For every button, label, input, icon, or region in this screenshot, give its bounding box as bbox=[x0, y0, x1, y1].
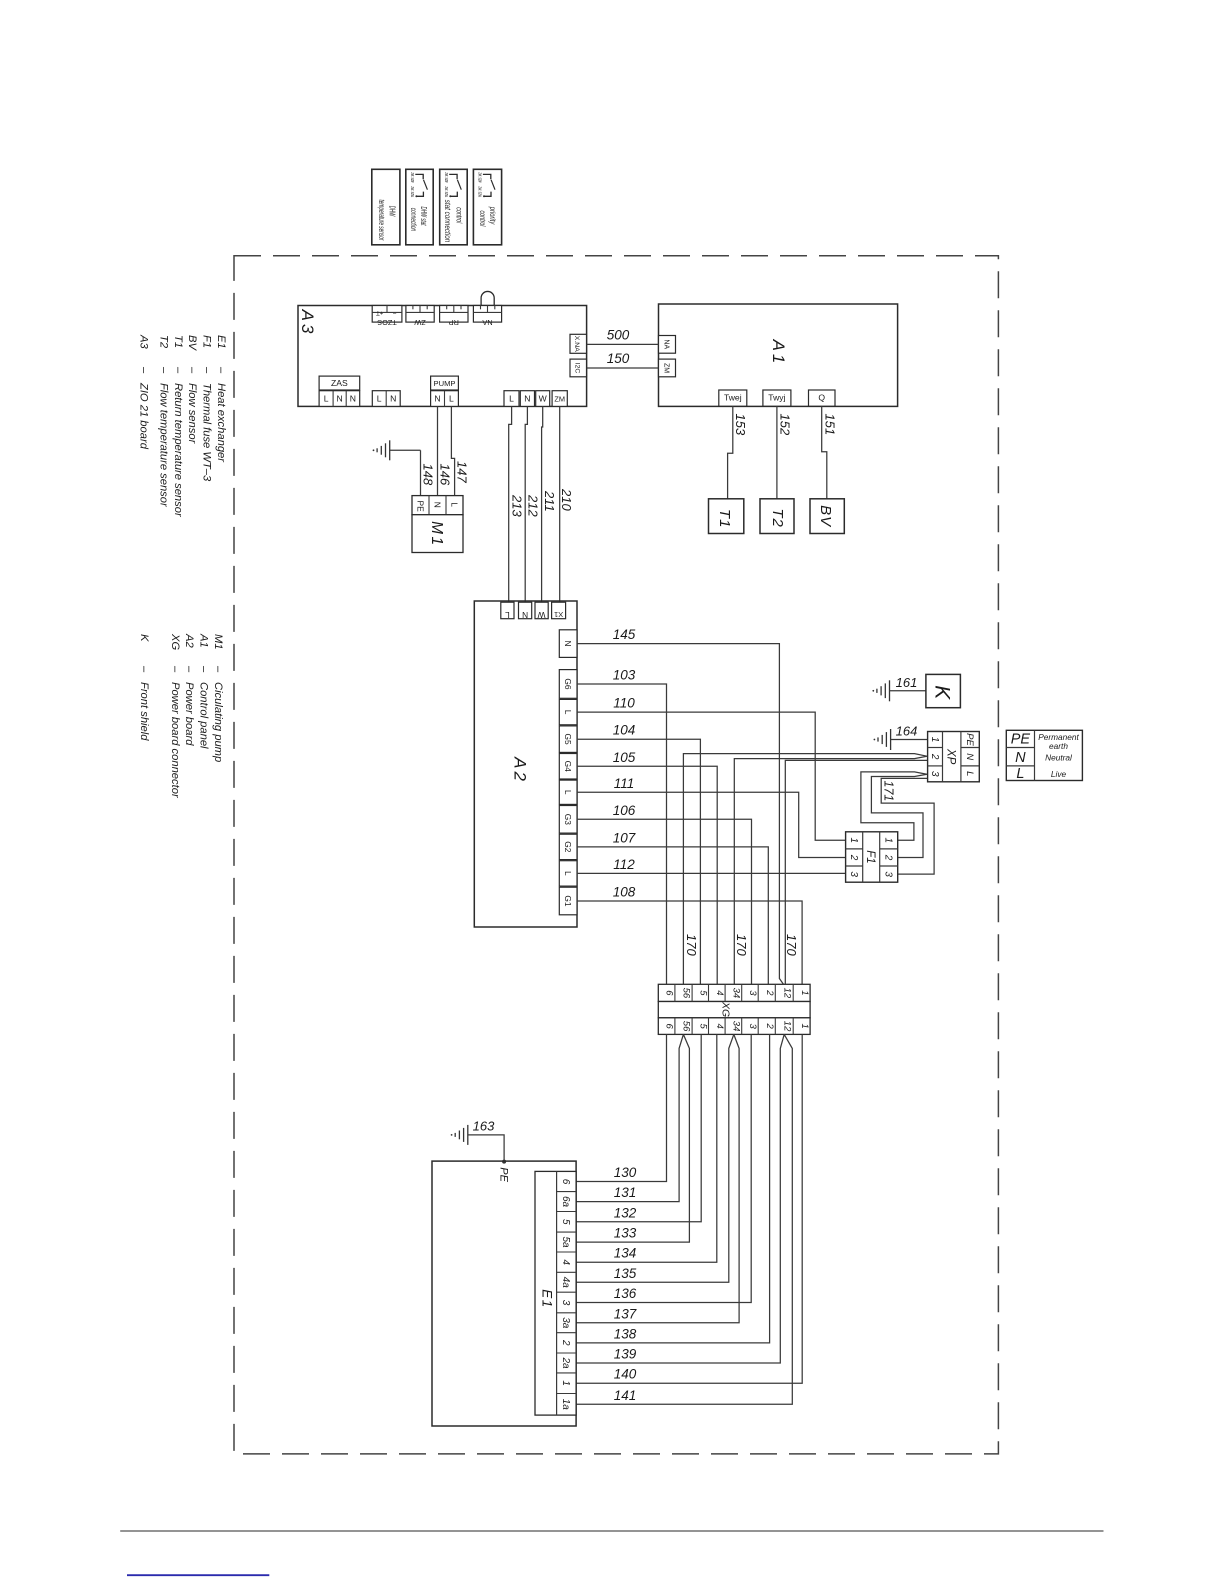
svg-text:X.NA: X.NA bbox=[573, 336, 580, 352]
wire 134 XG 4 to E1 4 bbox=[576, 1034, 717, 1262]
svg-text:control: control bbox=[454, 207, 463, 223]
svg-text:Q: Q bbox=[818, 392, 825, 402]
svg-text:12: 12 bbox=[781, 1021, 792, 1032]
svg-text:3a: 3a bbox=[560, 1317, 571, 1329]
wire 210 A3 ZM to A2 X1 bbox=[559, 406, 574, 602]
svg-text:A2: A2 bbox=[183, 633, 195, 648]
wire 130 XG 6 to E1 6 bbox=[576, 1034, 666, 1181]
svg-text:L: L bbox=[324, 394, 329, 404]
svg-text:1: 1 bbox=[882, 838, 893, 844]
svg-text:M1: M1 bbox=[428, 521, 445, 548]
svg-text:Twej: Twej bbox=[724, 392, 742, 402]
wire XP pin3 to F1 right pin 1 bbox=[861, 772, 927, 840]
svg-text:N: N bbox=[390, 394, 396, 404]
svg-text:Control panel: Control panel bbox=[198, 682, 210, 749]
svg-text:500: 500 bbox=[607, 328, 630, 343]
terminal pair L N on A3 bottom bbox=[372, 391, 400, 407]
svg-text:PE: PE bbox=[1011, 732, 1031, 748]
svg-text:PE: PE bbox=[964, 733, 975, 746]
svg-text:N: N bbox=[1015, 750, 1026, 766]
svg-text:2: 2 bbox=[560, 1339, 571, 1346]
terminal block ZW on A3 top bbox=[406, 306, 434, 328]
svg-text:earth: earth bbox=[1049, 741, 1068, 751]
wire 133 XG 56 to E1 5a bbox=[576, 1034, 689, 1242]
terminal PUMP (N L) on A3 bottom bbox=[431, 376, 459, 406]
sensor T1 bbox=[709, 499, 744, 534]
svg-text:171: 171 bbox=[882, 781, 896, 802]
wire 148 ground to M1 PE bbox=[421, 450, 436, 495]
svg-text:Thermal fuse WT–3: Thermal fuse WT–3 bbox=[201, 383, 213, 482]
svg-text:N: N bbox=[433, 502, 443, 508]
svg-text:T2: T2 bbox=[157, 335, 169, 349]
terminal Twyj on A1 bottom bbox=[763, 390, 791, 406]
svg-text:–: – bbox=[138, 665, 150, 673]
svg-text:L: L bbox=[377, 394, 382, 404]
svg-text:T1: T1 bbox=[716, 509, 733, 529]
heat exchanger E1 outline bbox=[432, 1161, 576, 1426]
svg-text:2: 2 bbox=[848, 854, 859, 861]
svg-text:138: 138 bbox=[614, 1326, 637, 1341]
svg-text:N: N bbox=[434, 394, 440, 404]
svg-text:147: 147 bbox=[455, 461, 470, 483]
wire 131 XG 56 to E1 6a bbox=[576, 1034, 683, 1201]
svg-text:6: 6 bbox=[664, 1023, 675, 1029]
svg-text:34: 34 bbox=[731, 988, 742, 999]
mains designation table PE N L bbox=[1006, 730, 1082, 782]
svg-text:W: W bbox=[538, 610, 546, 620]
svg-text:L: L bbox=[449, 394, 454, 404]
svg-text:4: 4 bbox=[560, 1259, 571, 1265]
wire 136 XG 3 to E1 3 bbox=[576, 1034, 751, 1302]
A2 right edge terminals bbox=[559, 630, 577, 915]
wire 139 XG 12 to E1 2a bbox=[576, 1034, 784, 1363]
svg-text:G2: G2 bbox=[563, 841, 573, 853]
ground for pump M1 bbox=[373, 440, 421, 460]
svg-text:Flow temperature sensor: Flow temperature sensor bbox=[157, 383, 169, 508]
svg-text:4a: 4a bbox=[560, 1277, 571, 1289]
svg-text:G6: G6 bbox=[563, 678, 573, 690]
svg-text:–: – bbox=[186, 366, 198, 374]
svg-text:W: W bbox=[539, 394, 548, 404]
svg-text:T1: T1 bbox=[172, 335, 184, 348]
svg-text:1: 1 bbox=[929, 737, 940, 743]
svg-text:56: 56 bbox=[681, 988, 692, 999]
svg-text:ZIO 21 board: ZIO 21 board bbox=[138, 382, 150, 450]
svg-text:Return temperature sensor: Return temperature sensor bbox=[172, 383, 184, 518]
wire 108 A2 G1 to XG pin 1 bbox=[577, 885, 802, 985]
pump M1 body bbox=[412, 515, 463, 553]
svg-text:56: 56 bbox=[681, 1021, 692, 1032]
svg-text:L: L bbox=[563, 790, 573, 795]
svg-text:DHW stat: DHW stat bbox=[419, 207, 428, 226]
svg-text:zw. szw: zw. szw bbox=[443, 172, 449, 183]
svg-text:34: 34 bbox=[731, 1021, 742, 1032]
svg-text:6: 6 bbox=[560, 1179, 571, 1185]
svg-text:A2: A2 bbox=[510, 756, 529, 784]
svg-text:BV: BV bbox=[817, 505, 834, 528]
svg-text:L: L bbox=[505, 610, 510, 620]
connector I2C on A3 right edge bbox=[570, 359, 587, 377]
svg-text:XG: XG bbox=[169, 633, 181, 650]
svg-text:6a: 6a bbox=[560, 1196, 571, 1208]
svg-text:G5: G5 bbox=[563, 734, 573, 746]
svg-text:A3: A3 bbox=[138, 334, 150, 349]
svg-text:G3: G3 bbox=[563, 814, 573, 826]
option box: DHW temperature sensor bbox=[372, 169, 400, 245]
svg-text:E1: E1 bbox=[215, 335, 227, 349]
dashed enclosure border bbox=[234, 256, 998, 1454]
svg-text:A3: A3 bbox=[298, 309, 317, 337]
svg-text:106: 106 bbox=[613, 803, 636, 818]
svg-text:ZW: ZW bbox=[414, 318, 425, 327]
svg-text:3: 3 bbox=[848, 871, 859, 877]
svg-text:5a: 5a bbox=[560, 1236, 571, 1248]
svg-text:4: 4 bbox=[714, 1023, 725, 1028]
svg-text:107: 107 bbox=[613, 830, 636, 845]
svg-text:1: 1 bbox=[560, 1380, 571, 1386]
wire 140 XG 1 to E1 1 bbox=[576, 1034, 802, 1383]
svg-text:146: 146 bbox=[438, 464, 453, 486]
svg-text:105: 105 bbox=[613, 750, 636, 765]
svg-text:A1: A1 bbox=[198, 633, 210, 648]
flow sensor BV bbox=[810, 499, 844, 534]
wire 106 A2 G3 to XG pin 3 bbox=[577, 803, 752, 985]
svg-text:connection: connection bbox=[409, 208, 418, 232]
wire 171 XP pin3 to F1 right pin 3 bbox=[881, 778, 934, 874]
svg-text:zw. szw.: zw. szw. bbox=[477, 186, 483, 198]
svg-text:N: N bbox=[350, 394, 356, 404]
wire 132 XG 5 to E1 5 bbox=[576, 1034, 701, 1221]
svg-text:L: L bbox=[563, 710, 573, 715]
connector XG bbox=[658, 984, 810, 1034]
svg-text:DHW: DHW bbox=[388, 206, 397, 217]
svg-text:N: N bbox=[964, 753, 975, 760]
svg-text:153: 153 bbox=[733, 414, 748, 436]
wire 145 A2 N to XG pin 12 bbox=[577, 627, 784, 984]
sensor T2 bbox=[760, 499, 794, 534]
svg-text:1a: 1a bbox=[560, 1399, 571, 1411]
svg-text:XG: XG bbox=[720, 1001, 732, 1017]
ground 161 for front shield bbox=[872, 675, 926, 701]
svg-text:L: L bbox=[563, 871, 573, 876]
svg-text:zw. szw.: zw. szw. bbox=[409, 186, 415, 198]
ground 164 to XP pin 1 bbox=[874, 724, 928, 751]
svg-text:135: 135 bbox=[614, 1266, 637, 1281]
svg-text:136: 136 bbox=[614, 1286, 637, 1301]
svg-text:3: 3 bbox=[882, 871, 893, 877]
svg-text:temperature sensor: temperature sensor bbox=[377, 200, 386, 241]
ground 163 to E1 PE bbox=[451, 1119, 510, 1183]
svg-text:XP: XP bbox=[945, 748, 957, 765]
svg-text:132: 132 bbox=[614, 1205, 637, 1220]
connector XNA on A3 right edge bbox=[570, 334, 587, 353]
svg-text:140: 140 bbox=[614, 1367, 637, 1382]
svg-text:stat connection: stat connection bbox=[443, 200, 452, 243]
svg-text:141: 141 bbox=[614, 1388, 637, 1403]
svg-text:priority: priority bbox=[488, 206, 497, 225]
svg-text:–: – bbox=[169, 665, 181, 673]
svg-text:–: – bbox=[198, 665, 210, 673]
terminal group ZAS (L N N) on A3 bottom bbox=[319, 376, 360, 406]
svg-text:1: 1 bbox=[848, 838, 859, 844]
wire 211 A3 W to A2 W bbox=[542, 406, 557, 602]
footer rule bbox=[120, 1530, 1103, 1532]
power board A2 bbox=[474, 601, 577, 927]
wire 110 A2 L to fuse F1 pin 1 bbox=[577, 696, 846, 841]
thermal fuse F1 bbox=[846, 832, 898, 882]
svg-text:211: 211 bbox=[542, 490, 557, 512]
wire 147 PUMP L to M1 L bbox=[451, 406, 469, 495]
svg-text:108: 108 bbox=[613, 885, 636, 900]
svg-text:151: 151 bbox=[822, 414, 837, 436]
svg-text:164: 164 bbox=[896, 724, 918, 739]
svg-text:111: 111 bbox=[614, 776, 635, 791]
terminals L N W on A3 bottom right bbox=[504, 391, 550, 407]
svg-text:131: 131 bbox=[614, 1185, 637, 1200]
wire 151 Q to BV bbox=[822, 406, 838, 499]
svg-text:4: 4 bbox=[714, 990, 725, 995]
svg-text:N: N bbox=[563, 641, 573, 647]
svg-text:104: 104 bbox=[613, 723, 636, 738]
svg-text:M1: M1 bbox=[212, 634, 224, 650]
terminal block NA on A3 top with jumper arc bbox=[473, 291, 501, 327]
wire 213 A3 L to A2 L bbox=[509, 406, 525, 602]
option box: priority control bbox=[473, 169, 501, 245]
svg-text:−: − bbox=[392, 309, 396, 316]
svg-text:–: – bbox=[172, 366, 184, 374]
svg-text:X1: X1 bbox=[554, 610, 563, 619]
svg-text:2a: 2a bbox=[560, 1356, 571, 1369]
terminal block RP on A3 top bbox=[440, 306, 468, 328]
svg-text:G1: G1 bbox=[563, 895, 573, 907]
wire 138 XG 2 to E1 2 bbox=[576, 1034, 770, 1343]
svg-text:E1: E1 bbox=[539, 1289, 554, 1309]
svg-text:F1: F1 bbox=[201, 335, 213, 348]
svg-text:134: 134 bbox=[614, 1246, 637, 1261]
svg-text:110: 110 bbox=[613, 696, 635, 711]
board A3 (ZIO 21) bbox=[298, 306, 587, 407]
svg-text:145: 145 bbox=[613, 627, 636, 642]
svg-text:2: 2 bbox=[882, 854, 893, 861]
svg-text:161: 161 bbox=[896, 675, 918, 690]
wire 500 XNA to NA bbox=[587, 328, 659, 345]
svg-text:L: L bbox=[509, 394, 514, 404]
connector NA on A1 left edge bbox=[659, 336, 676, 354]
svg-text:L: L bbox=[964, 771, 975, 776]
svg-text:ZM: ZM bbox=[663, 363, 670, 373]
front shield K bbox=[926, 674, 961, 707]
svg-text:ZM: ZM bbox=[554, 395, 565, 404]
svg-text:Flow sensor: Flow sensor bbox=[186, 383, 198, 445]
heat exchanger E1 terminal strip bbox=[535, 1171, 576, 1415]
svg-text:–: – bbox=[212, 665, 224, 673]
wire 153 Twej to T1 bbox=[728, 406, 749, 499]
svg-text:137: 137 bbox=[614, 1306, 637, 1321]
svg-text:N: N bbox=[336, 394, 342, 404]
svg-text:PE: PE bbox=[498, 1167, 510, 1182]
legend upper list bbox=[138, 334, 227, 518]
svg-text:3: 3 bbox=[747, 1023, 758, 1029]
wire 107 A2 G2 to XG pin 2 bbox=[577, 830, 768, 984]
svg-text:G4: G4 bbox=[563, 761, 573, 773]
svg-text:3: 3 bbox=[929, 771, 940, 777]
svg-text:3: 3 bbox=[560, 1300, 571, 1306]
wire 111 A2 L to fuse F1 pin 2 bbox=[577, 776, 846, 858]
terminal ZM on A3 bottom right bbox=[552, 391, 567, 407]
legend lower list bbox=[138, 633, 224, 799]
svg-text:BV: BV bbox=[186, 335, 198, 351]
svg-text:148: 148 bbox=[421, 464, 436, 486]
svg-text:Power board: Power board bbox=[183, 682, 195, 746]
svg-text:L: L bbox=[1016, 766, 1024, 782]
svg-text:–: – bbox=[215, 366, 227, 374]
control panel A1 bbox=[659, 304, 898, 406]
svg-text:1: 1 bbox=[799, 990, 810, 995]
svg-text:2: 2 bbox=[764, 989, 775, 996]
svg-text:103: 103 bbox=[613, 668, 636, 683]
wire 105 A2 G4 to XG pin 4 bbox=[577, 750, 717, 985]
terminal Q on A1 bottom bbox=[809, 390, 836, 406]
svg-text:N: N bbox=[522, 610, 528, 620]
svg-text:152: 152 bbox=[777, 414, 792, 436]
svg-text:zw. szw.: zw. szw. bbox=[443, 186, 449, 198]
wire XP pin3 to F1 right pin 2 bbox=[871, 774, 927, 857]
svg-text:12: 12 bbox=[781, 988, 792, 999]
svg-text:F1: F1 bbox=[864, 850, 876, 863]
svg-text:2: 2 bbox=[929, 753, 940, 760]
svg-text:–: – bbox=[183, 665, 195, 673]
svg-text:control: control bbox=[478, 211, 487, 227]
svg-text:Front shield: Front shield bbox=[138, 682, 150, 741]
wire 212 A3 N to A2 N bbox=[525, 406, 540, 602]
svg-text:5: 5 bbox=[560, 1219, 571, 1225]
svg-text:T2: T2 bbox=[769, 508, 786, 528]
terminal Twej on A1 bottom bbox=[719, 390, 747, 406]
svg-text:5: 5 bbox=[697, 1023, 708, 1029]
svg-text:–: – bbox=[157, 366, 169, 374]
svg-text:K: K bbox=[931, 685, 954, 700]
wire 141 XG 12 to E1 1a bbox=[576, 1034, 792, 1404]
svg-text:+T: +T bbox=[376, 309, 384, 315]
wire 104 A2 G5 to XG pin 5 bbox=[577, 723, 700, 985]
wire 112 A2 L to fuse F1 pin 3 bbox=[577, 857, 846, 874]
svg-text:1: 1 bbox=[799, 1023, 810, 1028]
svg-text:170: 170 bbox=[734, 934, 749, 956]
footer link underline bbox=[127, 1574, 269, 1576]
option box: control stat connection bbox=[440, 169, 468, 245]
svg-text:I2C: I2C bbox=[573, 363, 580, 374]
svg-text:K: K bbox=[138, 634, 150, 642]
svg-text:NA: NA bbox=[663, 339, 670, 349]
svg-text:–: – bbox=[138, 366, 150, 374]
svg-text:Twyj: Twyj bbox=[768, 392, 785, 402]
svg-text:150: 150 bbox=[607, 351, 630, 366]
svg-text:A1: A1 bbox=[769, 339, 788, 367]
wire 170 strand to XG pin 34 bbox=[734, 756, 927, 984]
wire 170 strand to XG pin 12 bbox=[784, 760, 927, 984]
svg-text:L: L bbox=[450, 502, 460, 507]
svg-text:130: 130 bbox=[614, 1165, 637, 1180]
svg-text:5: 5 bbox=[697, 990, 708, 996]
svg-text:Live: Live bbox=[1051, 769, 1067, 779]
svg-text:210: 210 bbox=[559, 488, 574, 511]
svg-text:170: 170 bbox=[784, 934, 799, 956]
terminal block TZOS on A3 top bbox=[372, 306, 402, 328]
connector ZM on A1 left edge bbox=[659, 359, 676, 377]
wire 146 PUMP N to M1 N bbox=[438, 406, 453, 495]
pump M1 terminals PE N L bbox=[412, 496, 463, 515]
svg-text:2: 2 bbox=[764, 1022, 775, 1029]
svg-text:TZOS: TZOS bbox=[377, 318, 397, 327]
svg-text:N: N bbox=[524, 394, 530, 404]
svg-text:6: 6 bbox=[664, 990, 675, 996]
svg-text:213: 213 bbox=[509, 494, 524, 517]
wire 137 XG 34 to E1 3a bbox=[576, 1034, 739, 1322]
svg-text:PE: PE bbox=[415, 501, 425, 513]
svg-text:zw. szw: zw. szw bbox=[477, 172, 483, 183]
wire 103 A2 G6 to XG pin 6 bbox=[577, 668, 667, 985]
svg-text:Neutral: Neutral bbox=[1045, 753, 1073, 763]
svg-text:–: – bbox=[201, 366, 213, 374]
svg-text:139: 139 bbox=[614, 1347, 637, 1362]
wire 152 Twyj to T2 bbox=[777, 406, 792, 499]
wire 170 strand to XG pin 56 bbox=[683, 754, 927, 985]
wire 135 XG 34 to E1 4a bbox=[576, 1034, 734, 1282]
svg-text:Power board connector: Power board connector bbox=[169, 682, 181, 799]
svg-text:163: 163 bbox=[473, 1119, 495, 1134]
svg-text:NA: NA bbox=[482, 318, 492, 327]
svg-text:RP: RP bbox=[449, 318, 459, 327]
A2 top terminals L N W X1 bbox=[501, 602, 566, 620]
svg-text:212: 212 bbox=[525, 494, 540, 517]
svg-text:zw. szw: zw. szw bbox=[409, 172, 415, 183]
svg-text:ZAS: ZAS bbox=[331, 378, 348, 388]
svg-text:3: 3 bbox=[747, 990, 758, 996]
svg-text:170: 170 bbox=[684, 934, 699, 956]
option box: DHW stat connection bbox=[406, 169, 433, 245]
svg-text:Ciculating pump: Ciculating pump bbox=[212, 682, 224, 762]
svg-text:Heat exchanger: Heat exchanger bbox=[215, 383, 227, 463]
connector XP bbox=[928, 732, 980, 782]
svg-text:112: 112 bbox=[613, 857, 635, 872]
svg-text:PUMP: PUMP bbox=[434, 379, 456, 388]
svg-text:133: 133 bbox=[614, 1226, 637, 1241]
wire 150 I2C to ZM bbox=[587, 351, 659, 368]
